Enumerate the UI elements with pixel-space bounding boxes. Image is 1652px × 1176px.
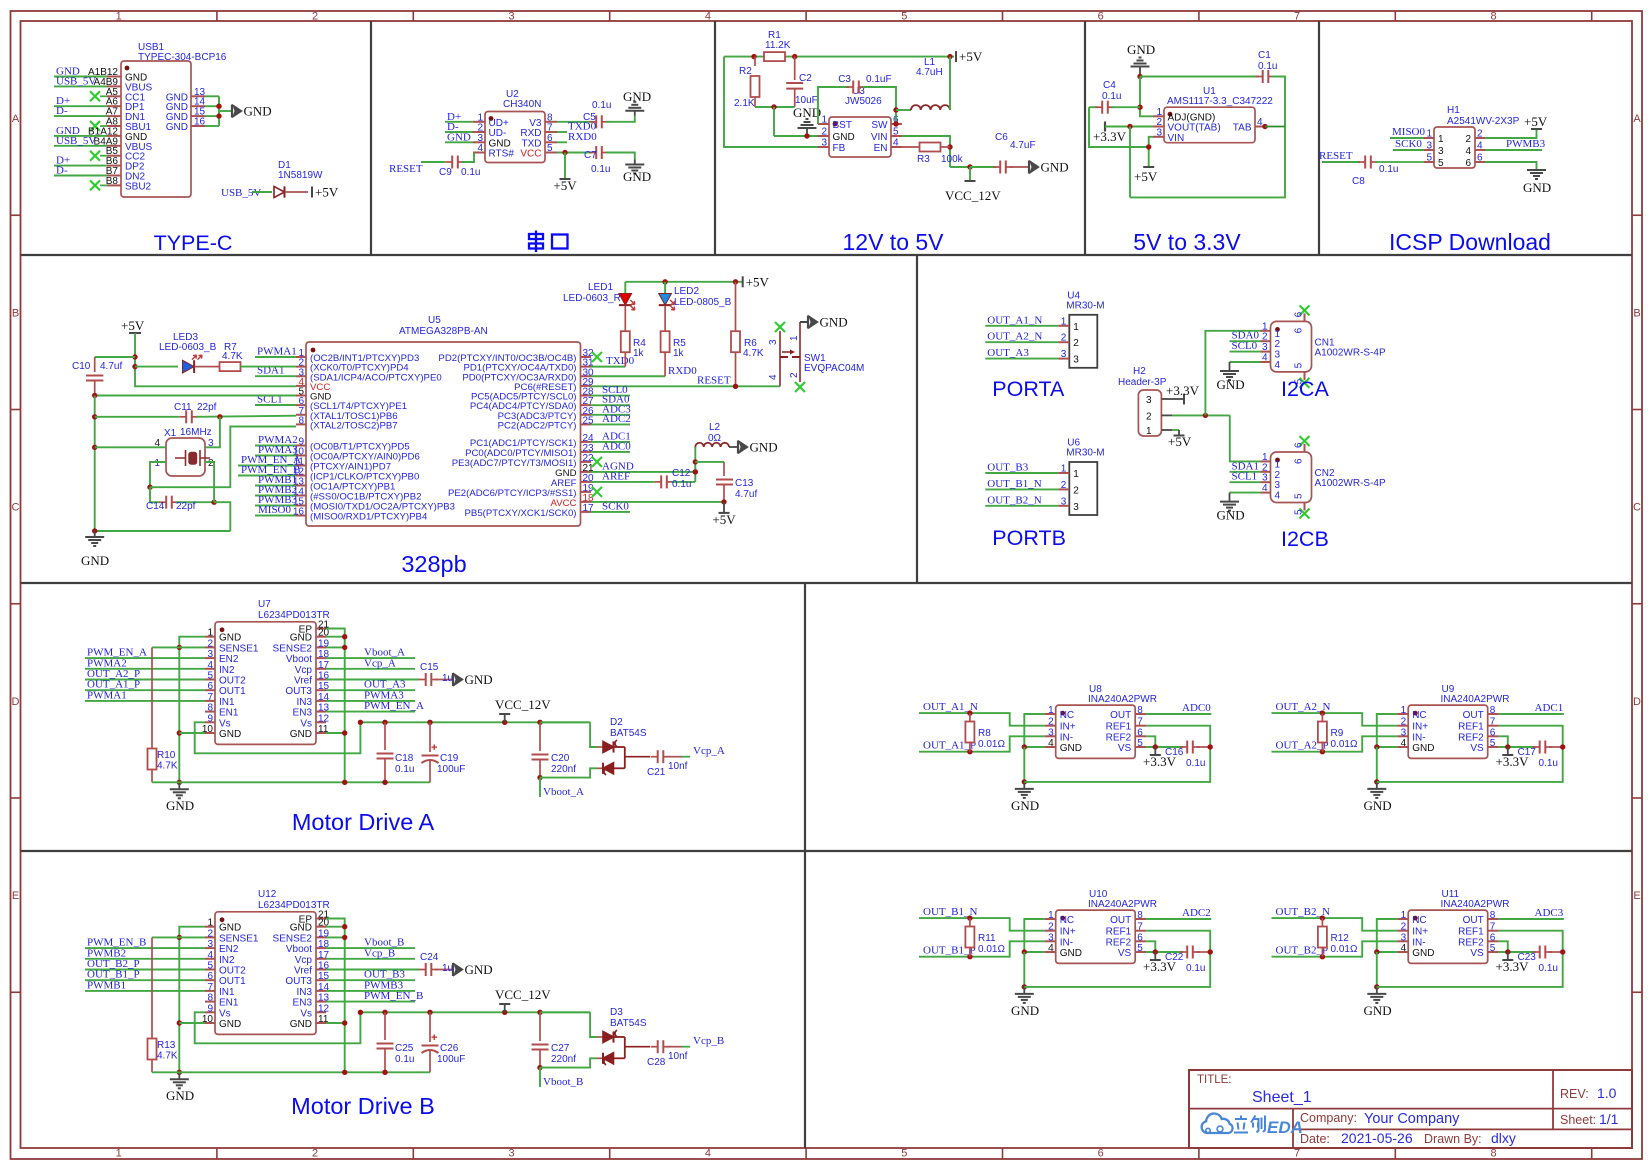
svg-text:1: 1 [1048, 910, 1054, 921]
svg-text:VCC: VCC [520, 149, 541, 160]
svg-text:GND: GND [1060, 948, 1082, 959]
svg-text:5: 5 [207, 961, 213, 972]
svg-text:EVQPAC04M: EVQPAC04M [804, 363, 864, 374]
svg-text:OUT_B2_N: OUT_B2_N [987, 494, 1041, 506]
svg-text:3: 3 [508, 11, 514, 23]
svg-text:OUT_A1_N: OUT_A1_N [987, 314, 1042, 326]
svg-text:3: 3 [207, 939, 213, 950]
svg-text:+: + [431, 742, 437, 754]
svg-text:100uF: 100uF [437, 764, 465, 775]
svg-text:VCC_12V: VCC_12V [945, 188, 1001, 203]
svg-text:MR30-M: MR30-M [1066, 448, 1104, 459]
svg-text:3: 3 [1438, 146, 1444, 157]
svg-text:BAT54S: BAT54S [610, 728, 647, 739]
svg-text:Vs: Vs [219, 718, 231, 729]
svg-text:GND: GND [1523, 180, 1551, 195]
svg-text:Header-3P: Header-3P [1118, 377, 1167, 388]
svg-text:2: 2 [1275, 470, 1281, 481]
svg-text:E: E [1633, 890, 1640, 902]
svg-text:2: 2 [821, 127, 827, 138]
svg-text:MR30-M: MR30-M [1066, 300, 1104, 311]
svg-text:TITLE:: TITLE: [1197, 1074, 1232, 1086]
svg-text:6: 6 [1137, 932, 1143, 943]
svg-text:REF1: REF1 [1106, 927, 1132, 938]
svg-text:IN+: IN+ [1060, 927, 1076, 938]
svg-text:SENSE1: SENSE1 [219, 933, 259, 944]
svg-text:7: 7 [1490, 717, 1496, 728]
svg-text:+5V: +5V [1134, 169, 1158, 184]
svg-text:2.1K: 2.1K [734, 98, 755, 109]
svg-text:NC: NC [1060, 915, 1074, 926]
svg-text:LED2: LED2 [674, 286, 699, 297]
svg-text:Vboot_B: Vboot_B [543, 1076, 583, 1088]
svg-text:0.1u: 0.1u [1102, 91, 1121, 102]
svg-text:IN+: IN+ [1060, 722, 1076, 733]
svg-text:OUT1: OUT1 [219, 686, 246, 697]
svg-text:GND: GND [166, 122, 188, 133]
svg-text:LED1: LED1 [588, 282, 613, 293]
svg-text:+5V: +5V [1524, 114, 1548, 129]
svg-text:INA240A2PWR: INA240A2PWR [1441, 694, 1510, 705]
svg-text:0.01Ω: 0.01Ω [978, 739, 1005, 750]
svg-text:C16: C16 [1165, 747, 1184, 758]
svg-text:4.7K: 4.7K [743, 348, 764, 359]
svg-text:B8: B8 [106, 176, 119, 187]
svg-text:C22: C22 [1165, 952, 1184, 963]
svg-text:ATMEGA328PB-AN: ATMEGA328PB-AN [399, 326, 488, 337]
svg-text:A: A [1633, 113, 1641, 125]
svg-text:7: 7 [207, 982, 213, 993]
svg-text:Your Company: Your Company [1364, 1111, 1460, 1127]
svg-text:GND: GND [1127, 42, 1155, 57]
svg-text:5: 5 [901, 1148, 907, 1160]
svg-text:GND: GND [166, 1088, 194, 1103]
svg-text:GND: GND [1364, 1003, 1392, 1018]
svg-text:AREF: AREF [602, 470, 630, 482]
svg-text:5: 5 [207, 671, 213, 682]
svg-text:2: 2 [312, 1148, 318, 1160]
svg-text:EDA: EDA [1267, 1118, 1303, 1137]
svg-text:OUT2: OUT2 [219, 966, 246, 977]
svg-text:1: 1 [1426, 129, 1432, 140]
svg-text:VS: VS [1118, 743, 1132, 754]
svg-text:EN1: EN1 [219, 708, 239, 719]
svg-text:12: 12 [318, 713, 330, 724]
svg-text:GND: GND [750, 440, 778, 455]
svg-text:0.1u: 0.1u [1379, 164, 1398, 175]
svg-text:2: 2 [1048, 717, 1054, 728]
svg-text:3: 3 [1426, 141, 1432, 152]
svg-text:C6: C6 [995, 132, 1008, 143]
svg-text:+5V: +5V [712, 512, 736, 527]
svg-text:6: 6 [1490, 727, 1496, 738]
svg-text:6: 6 [1098, 1148, 1104, 1160]
svg-text:2: 2 [1401, 922, 1407, 933]
svg-text:GND: GND [1217, 508, 1245, 523]
svg-text:Vref: Vref [294, 966, 312, 977]
svg-text:3: 3 [1262, 342, 1268, 353]
svg-text:8: 8 [1490, 1148, 1496, 1160]
svg-text:VS: VS [1470, 743, 1484, 754]
svg-text:SENSE2: SENSE2 [273, 643, 313, 654]
svg-text:D3: D3 [610, 1007, 623, 1018]
svg-text:1: 1 [1061, 316, 1067, 327]
svg-text:GND: GND [820, 315, 848, 330]
svg-text:4: 4 [893, 138, 899, 149]
svg-text:SCK0: SCK0 [602, 500, 629, 512]
svg-text:Vcp: Vcp [295, 665, 313, 676]
svg-text:3: 3 [1073, 502, 1079, 513]
svg-text:REF1: REF1 [1458, 722, 1484, 733]
svg-text:GND: GND [1011, 1003, 1039, 1018]
svg-text:3: 3 [1048, 932, 1054, 943]
svg-text:6: 6 [1294, 327, 1305, 333]
svg-text:A1002WR-S-4P: A1002WR-S-4P [1315, 347, 1386, 358]
svg-text:ADC2: ADC2 [1182, 907, 1211, 919]
svg-text:C: C [12, 502, 20, 514]
svg-text:0.1u: 0.1u [1186, 758, 1205, 769]
svg-text:Vcp_A: Vcp_A [364, 657, 396, 669]
svg-text:2: 2 [1146, 411, 1152, 422]
svg-text:2021-05-26: 2021-05-26 [1341, 1130, 1413, 1146]
svg-text:12: 12 [318, 1003, 330, 1014]
svg-text:VIN: VIN [1168, 133, 1185, 144]
svg-text:C18: C18 [395, 753, 414, 764]
svg-text:6: 6 [1465, 158, 1471, 169]
svg-text:1: 1 [1061, 464, 1067, 475]
svg-text:NC: NC [1412, 915, 1426, 926]
svg-text:U5: U5 [428, 315, 441, 326]
svg-text:C17: C17 [1518, 747, 1537, 758]
svg-text:100uF: 100uF [437, 1054, 465, 1065]
svg-text:0.1u: 0.1u [1539, 963, 1558, 974]
svg-text:RXD0: RXD0 [668, 365, 697, 377]
svg-text:10nf: 10nf [668, 761, 688, 772]
svg-text:2: 2 [1477, 129, 1483, 140]
svg-text:Drawn By:: Drawn By: [1424, 1132, 1482, 1146]
svg-text:220nf: 220nf [551, 764, 576, 775]
svg-text:100k: 100k [941, 154, 964, 165]
svg-text:IN3: IN3 [296, 697, 312, 708]
svg-text:22pf: 22pf [176, 501, 196, 512]
svg-text:+5V: +5V [1168, 434, 1192, 449]
svg-text:2: 2 [1275, 339, 1281, 350]
svg-text:1: 1 [1262, 321, 1268, 332]
svg-text:GND: GND [793, 105, 821, 120]
svg-text:3: 3 [768, 339, 779, 345]
svg-text:INA240A2PWR: INA240A2PWR [1441, 899, 1510, 910]
svg-text:REF2: REF2 [1458, 937, 1484, 948]
svg-text:R3: R3 [917, 154, 930, 165]
svg-text:Vboot: Vboot [286, 654, 312, 665]
svg-text:8: 8 [207, 993, 213, 1004]
svg-text:2: 2 [208, 458, 214, 469]
svg-text:12V to 5V: 12V to 5V [842, 229, 944, 255]
svg-text:5: 5 [1294, 509, 1305, 515]
svg-text:R9: R9 [1331, 728, 1344, 739]
svg-text:GND: GND [1412, 743, 1434, 754]
svg-text:4: 4 [1477, 141, 1483, 152]
svg-text:CH340N: CH340N [503, 99, 541, 110]
svg-text:3: 3 [1401, 932, 1407, 943]
svg-text:H2: H2 [1133, 366, 1146, 377]
svg-text:4: 4 [1048, 943, 1054, 954]
svg-text:6: 6 [1098, 11, 1104, 23]
svg-text:Vs: Vs [300, 718, 312, 729]
svg-text:8: 8 [1137, 705, 1143, 716]
svg-text:1k: 1k [633, 348, 645, 359]
svg-text:EN3: EN3 [293, 708, 313, 719]
svg-text:B: B [1633, 307, 1640, 319]
svg-text:1: 1 [1275, 459, 1281, 470]
svg-text:VCC_12V: VCC_12V [495, 987, 551, 1002]
svg-text:D-: D- [56, 105, 68, 117]
svg-text:INA240A2PWR: INA240A2PWR [1088, 694, 1157, 705]
svg-text:9: 9 [207, 1003, 213, 1014]
svg-text:2: 2 [207, 638, 213, 649]
svg-text:IN+: IN+ [1412, 722, 1428, 733]
svg-text:4.7K: 4.7K [157, 761, 178, 772]
svg-text:R13: R13 [157, 1040, 176, 1051]
svg-text:+5V: +5V [315, 185, 339, 200]
svg-text:REV:: REV: [1560, 1087, 1589, 1101]
svg-text:C3: C3 [838, 74, 851, 85]
svg-text:R8: R8 [978, 728, 991, 739]
svg-text:EN1: EN1 [219, 998, 239, 1009]
svg-text:2: 2 [789, 372, 800, 378]
svg-text:+: + [431, 1032, 437, 1044]
svg-text:7: 7 [1294, 1148, 1300, 1160]
svg-text:A1002WR-S-4P: A1002WR-S-4P [1315, 478, 1386, 489]
svg-text:E: E [12, 890, 19, 902]
svg-text:Motor Drive A: Motor Drive A [292, 809, 435, 835]
svg-text:0.01Ω: 0.01Ω [1331, 739, 1358, 750]
svg-text:USB_5V: USB_5V [56, 135, 96, 147]
svg-text:dlxy: dlxy [1491, 1130, 1516, 1146]
svg-text:4: 4 [1257, 117, 1263, 128]
svg-text:4: 4 [1465, 146, 1471, 157]
svg-text:C7: C7 [584, 150, 597, 161]
svg-text:5: 5 [1294, 362, 1305, 368]
svg-text:R10: R10 [157, 750, 176, 761]
svg-text:220nf: 220nf [551, 1054, 576, 1065]
svg-text:PORTA: PORTA [992, 377, 1065, 401]
svg-text:NC: NC [1060, 710, 1074, 721]
svg-text:1: 1 [1146, 426, 1152, 437]
svg-text:USB_5V: USB_5V [56, 75, 96, 87]
svg-text:+5V: +5V [959, 49, 983, 64]
svg-text:4: 4 [1275, 360, 1281, 371]
svg-text:A2541WV-2X3P: A2541WV-2X3P [1447, 116, 1520, 127]
svg-text:3: 3 [508, 1148, 514, 1160]
svg-text:OUT_A3: OUT_A3 [987, 347, 1029, 359]
svg-text:1: 1 [207, 628, 213, 639]
svg-text:328pb: 328pb [401, 551, 466, 577]
svg-text:PWMB3: PWMB3 [1506, 138, 1546, 150]
svg-text:LED-0603_R: LED-0603_R [563, 293, 621, 304]
svg-text:ADC0: ADC0 [1182, 702, 1211, 714]
svg-text:5: 5 [1438, 158, 1444, 169]
svg-text:9: 9 [207, 713, 213, 724]
svg-text:1: 1 [207, 918, 213, 929]
svg-text:VIN: VIN [871, 132, 888, 143]
svg-text:OUT3: OUT3 [285, 686, 312, 697]
svg-text:TXD0: TXD0 [606, 355, 635, 367]
svg-text:4: 4 [207, 950, 213, 961]
svg-text:3: 3 [1073, 355, 1079, 366]
svg-text:NC: NC [1412, 710, 1426, 721]
svg-text:1: 1 [1275, 329, 1281, 340]
svg-text:H1: H1 [1447, 105, 1460, 116]
svg-text:11.2K: 11.2K [765, 40, 791, 51]
svg-text:3: 3 [1262, 473, 1268, 484]
svg-text:C10: C10 [72, 361, 91, 372]
svg-text:Vcp: Vcp [295, 955, 313, 966]
svg-text:PWMA1: PWMA1 [87, 689, 127, 701]
svg-text:4.7uf: 4.7uf [735, 489, 757, 500]
svg-text:OUT: OUT [1463, 915, 1484, 926]
svg-text:GND: GND [219, 1019, 241, 1030]
svg-text:C12: C12 [672, 468, 691, 479]
svg-text:8: 8 [1490, 11, 1496, 23]
svg-text:2: 2 [1262, 462, 1268, 473]
svg-text:PORTB: PORTB [992, 526, 1066, 550]
svg-text:2: 2 [312, 11, 318, 23]
svg-text:0.1u: 0.1u [1258, 61, 1277, 72]
svg-text:1: 1 [1438, 134, 1444, 145]
svg-text:2: 2 [1401, 717, 1407, 728]
svg-text:0.1uF: 0.1uF [866, 74, 892, 85]
svg-text:GND: GND [1011, 798, 1039, 813]
svg-text:FB: FB [833, 143, 846, 154]
svg-text:1: 1 [1401, 705, 1407, 716]
svg-text:C24: C24 [420, 952, 439, 963]
svg-text:GND: GND [465, 672, 493, 687]
svg-text:RESET: RESET [697, 375, 731, 387]
svg-text:4: 4 [1048, 738, 1054, 749]
svg-text:ADC1: ADC1 [1535, 702, 1564, 714]
svg-text:OUT_B1_N: OUT_B1_N [987, 478, 1041, 490]
svg-text:C8: C8 [1352, 176, 1365, 187]
svg-text:5: 5 [1490, 943, 1496, 954]
svg-text:OUT2: OUT2 [219, 676, 246, 687]
svg-text:SENSE2: SENSE2 [273, 933, 313, 944]
svg-text:Vcp_B: Vcp_B [364, 947, 395, 959]
svg-text:L2: L2 [709, 422, 721, 433]
svg-text:7: 7 [1294, 11, 1300, 23]
svg-text:IN2: IN2 [219, 665, 235, 676]
svg-text:7: 7 [1490, 922, 1496, 933]
svg-text:LED-0805_B: LED-0805_B [674, 297, 732, 308]
svg-text:5: 5 [1294, 493, 1305, 499]
svg-text:C: C [1633, 502, 1641, 514]
svg-text:ICSP Download: ICSP Download [1389, 229, 1551, 255]
svg-text:4.7uf: 4.7uf [100, 361, 122, 372]
svg-text:GND: GND [290, 633, 312, 644]
svg-text:3: 3 [1156, 127, 1162, 138]
svg-text:(MISO0/RXD1/PTCXY)PB4: (MISO0/RXD1/PTCXY)PB4 [310, 512, 428, 523]
svg-text:16MHz: 16MHz [180, 427, 212, 438]
svg-text:Sheet:: Sheet: [1560, 1113, 1596, 1127]
svg-text:GND: GND [290, 729, 312, 740]
svg-text:RESET: RESET [389, 163, 423, 175]
svg-text:GND: GND [166, 798, 194, 813]
svg-text:RXD0: RXD0 [568, 131, 597, 143]
svg-text:3: 3 [1275, 350, 1281, 361]
svg-text:1: 1 [116, 11, 122, 23]
svg-text:IN1: IN1 [219, 987, 235, 998]
svg-text:OUT_B3: OUT_B3 [987, 462, 1028, 474]
svg-text:VS: VS [1118, 948, 1132, 959]
svg-text:2: 2 [1048, 922, 1054, 933]
svg-text:10nf: 10nf [668, 1051, 688, 1062]
svg-text:4: 4 [207, 660, 213, 671]
svg-text:22pf: 22pf [197, 402, 217, 413]
svg-text:0.1u: 0.1u [461, 167, 480, 178]
svg-text:TYPE-C: TYPE-C [154, 231, 233, 255]
svg-text:GND: GND [81, 553, 109, 568]
svg-text:GND: GND [465, 962, 493, 977]
svg-text:2: 2 [207, 928, 213, 939]
svg-text:R12: R12 [1331, 933, 1350, 944]
svg-text:ADC0: ADC0 [602, 440, 631, 452]
svg-text:RTS#: RTS# [489, 149, 515, 160]
svg-text:1u: 1u [442, 963, 453, 974]
svg-text:5: 5 [893, 127, 899, 138]
svg-text:1: 1 [116, 1148, 122, 1160]
svg-text:OUT: OUT [1110, 710, 1131, 721]
svg-text:C14: C14 [146, 501, 165, 512]
svg-text:6: 6 [1294, 311, 1305, 317]
svg-text:0.01Ω: 0.01Ω [978, 944, 1005, 955]
svg-text:TAB: TAB [1233, 123, 1252, 134]
svg-text:4: 4 [477, 143, 483, 154]
svg-text:C25: C25 [395, 1043, 414, 1054]
svg-text:0.1u: 0.1u [395, 764, 414, 775]
svg-text:3: 3 [1401, 727, 1407, 738]
svg-text:SCL1: SCL1 [1232, 471, 1258, 483]
svg-text:REF2: REF2 [1106, 732, 1132, 743]
svg-text:Motor Drive B: Motor Drive B [291, 1093, 435, 1119]
svg-text:GND: GND [623, 89, 651, 104]
svg-text:5: 5 [1137, 738, 1143, 749]
svg-text:C23: C23 [1518, 952, 1537, 963]
svg-text:BAT54S: BAT54S [610, 1018, 647, 1029]
svg-text:4: 4 [705, 11, 711, 23]
svg-text:1: 1 [154, 458, 160, 469]
svg-text:4.7uH: 4.7uH [916, 67, 943, 78]
svg-text:GND: GND [833, 132, 855, 143]
svg-text:0.01Ω: 0.01Ω [1331, 944, 1358, 955]
svg-text:5: 5 [1490, 738, 1496, 749]
svg-text:A: A [12, 113, 20, 125]
svg-text:VS: VS [1470, 948, 1484, 959]
svg-text:0.1u: 0.1u [592, 100, 611, 111]
svg-text:IN-: IN- [1060, 937, 1073, 948]
svg-text:C19: C19 [440, 753, 459, 764]
svg-text:OUT3: OUT3 [285, 976, 312, 987]
svg-text:PB5(PTCXY/XCK1/SCK0): PB5(PTCXY/XCK1/SCK0) [465, 508, 577, 519]
svg-text:8: 8 [298, 415, 304, 426]
svg-text:+3.3V: +3.3V [1166, 383, 1200, 398]
svg-text:IN+: IN+ [1412, 927, 1428, 938]
svg-text:8: 8 [207, 703, 213, 714]
svg-text:6: 6 [207, 681, 213, 692]
svg-text:GND: GND [219, 729, 241, 740]
svg-text:GND: GND [1041, 160, 1069, 175]
svg-text:+5V: +5V [553, 178, 577, 193]
svg-text:INA240A2PWR: INA240A2PWR [1088, 899, 1157, 910]
